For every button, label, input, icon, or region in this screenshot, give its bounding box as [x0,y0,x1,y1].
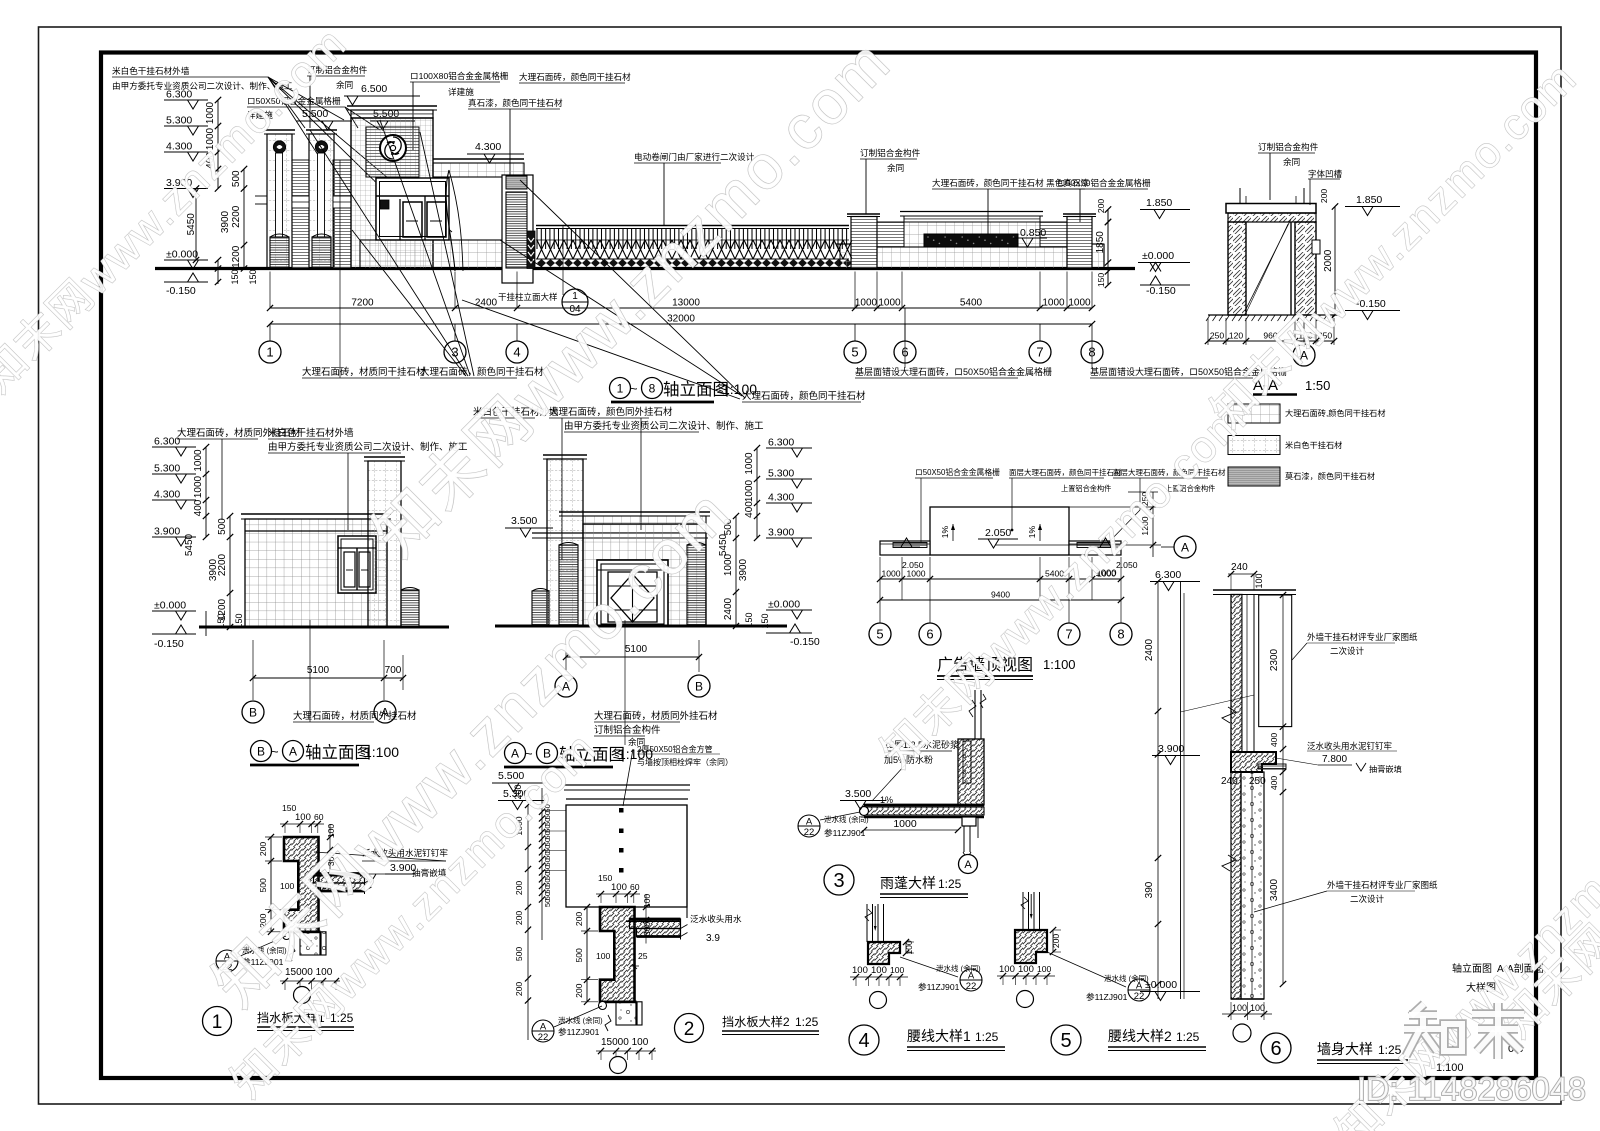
B-A window [338,536,376,593]
levels stack [152,446,196,448]
svg-text:300: 300 [642,922,652,937]
fence X lattice band [537,240,546,259]
svg-text:4: 4 [858,1030,869,1052]
svg-text:2400: 2400 [475,298,498,309]
svg-text:米白色干挂石材外墙: 米白色干挂石材外墙 [112,65,190,76]
svg-text:5.300: 5.300 [768,468,794,480]
svg-text:4.300: 4.300 [475,141,501,153]
B-A right tower [364,456,405,458]
A-A top antennas [1239,188,1241,203]
detail6 right dim ladder [1282,595,1284,740]
svg-text:面层大理石面砖，颜色同干挂石材: 面层大理石面砖，颜色同干挂石材 [1009,467,1122,477]
svg-text:3900: 3900 [208,558,219,581]
break squiggle [289,945,295,961]
svg-text:基层面错设大理石面砖，ロ50X50铝合金金属格栅: 基层面错设大理石面砖，ロ50X50铝合金金属格栅 [855,366,1052,377]
title [675,1014,704,1043]
A-A dims [1207,318,1209,345]
svg-text:1:100: 1:100 [364,744,399,760]
detail3 1000 dim [864,829,958,831]
svg-text:1000: 1000 [205,101,216,124]
svg-text:0.850: 0.850 [1020,227,1046,239]
svg-text:由甲方委托专业资质公司二次设计、制作、施工: 由甲方委托专业资质公司二次设计、制作、施工 [564,420,764,432]
empty ref circle [294,987,311,1004]
svg-text:6: 6 [1270,1038,1281,1060]
svg-text:150: 150 [230,269,240,284]
svg-text:2300: 2300 [1269,648,1280,671]
svg-text:订制铝合金构件: 订制铝合金构件 [860,147,921,158]
fence bottom diamond chain [537,259,546,267]
drip circle [599,1002,607,1010]
svg-text:22: 22 [966,981,977,992]
svg-text:-0.150: -0.150 [166,285,196,297]
ad wall pillar axis5 [847,213,880,215]
svg-text:大理石面砖，颜色同干挂石材: 大理石面砖，颜色同干挂石材 [742,390,866,402]
detail6 break marks [1222,707,1236,723]
corner brand 知末 (drawn) [1411,1004,1424,1016]
sill wall tiles [360,240,505,269]
svg-text:200: 200 [514,982,524,997]
waist slab [868,942,900,964]
svg-text:390: 390 [1144,881,1155,898]
svg-text:9400: 9400 [991,590,1010,600]
left dims [586,907,588,1002]
svg-text:参11ZJ901: 参11ZJ901 [558,1026,600,1037]
svg-text:200: 200 [1051,934,1061,949]
svg-text:5100: 5100 [625,644,648,655]
detail6 left dims [1157,582,1159,1000]
svg-text:二次设计: 二次设计 [1350,894,1385,904]
B-A building body [245,519,387,627]
svg-text:±0.000: ±0.000 [768,599,800,611]
waist ref circle [870,992,887,1009]
svg-text:大理石面砖,颜色同干挂石材: 大理石面砖,颜色同干挂石材 [1285,408,1386,418]
svg-text:参11ZJ901: 参11ZJ901 [1086,991,1128,1002]
dims row 7200/2400/13000... [270,307,1092,309]
A-B left tower [543,454,587,456]
svg-text:B: B [695,679,703,693]
svg-text:1: 1 [572,291,578,302]
svg-text:B: B [249,705,257,719]
svg-text:500: 500 [217,518,228,535]
detail6 upper wall column [1231,595,1242,753]
svg-text:6.300: 6.300 [768,437,794,449]
svg-text:±0.000: ±0.000 [1145,979,1177,991]
svg-text:A: A [289,744,297,758]
plan main rect [930,507,1069,555]
empty ref circle [610,1057,627,1074]
svg-text:15000 100: 15000 100 [601,1037,649,1048]
svg-text:5.500: 5.500 [302,108,328,120]
svg-text:大理石面砖，材质同干挂石材: 大理石面砖，材质同干挂石材 [302,366,426,378]
svg-text:250: 250 [1210,331,1225,341]
svg-text:3.900: 3.900 [768,527,794,539]
svg-text:1:25: 1:25 [1176,1030,1200,1044]
svg-text:60: 60 [630,882,640,892]
svg-text:5: 5 [1060,1030,1071,1052]
svg-text:1850: 1850 [1095,231,1106,254]
svg-text:1000: 1000 [893,818,917,830]
svg-text:8: 8 [1117,627,1124,642]
svg-text:A: A [964,859,972,871]
guard house roof slab [433,158,524,160]
svg-text:120: 120 [1229,331,1244,341]
svg-text:100: 100 [890,965,905,975]
waist bottom dims [997,975,1055,977]
svg-text:1:25: 1:25 [938,877,962,891]
svg-text:5.300: 5.300 [154,463,180,475]
detail6 stone panel outline [1259,595,1292,727]
svg-text:60: 60 [314,812,324,822]
retractable fence lattice [536,225,849,227]
svg-text:22: 22 [538,1032,549,1043]
fence: gate post block [527,231,535,269]
A-A door swing line [1245,219,1291,311]
svg-text:1000: 1000 [881,569,900,579]
svg-text:200: 200 [1319,189,1329,204]
dims row total 32000 [270,323,1092,325]
svg-text:1:50: 1:50 [1305,378,1330,393]
svg-text:100: 100 [1232,1003,1247,1013]
svg-text:500: 500 [514,947,524,962]
svg-text:米白色干挂石材外墙: 米白色干挂石材外墙 [268,427,354,439]
leader fan lines [268,77,305,128]
svg-text:~: ~ [630,381,638,396]
legend swatches [1228,404,1280,423]
svg-text:泄水线 (余同): 泄水线 (余同) [558,1015,603,1025]
svg-text:1000: 1000 [193,475,204,498]
svg-text:2400: 2400 [723,597,734,620]
B-A fluted base right [401,590,419,627]
svg-text:大理石面砖，材质同外挂石材: 大理石面砖，材质同外挂石材 [293,710,417,722]
title 1-8 [610,378,631,399]
svg-text:1000: 1000 [1042,298,1065,309]
detail6 left extension lines [1180,582,1182,1000]
flashing lower layer [321,883,365,891]
svg-text:雨蓬大样: 雨蓬大样 [880,875,936,891]
svg-text:100: 100 [596,951,611,961]
svg-text:腰线大样1: 腰线大样1 [907,1028,971,1044]
svg-text:6: 6 [926,627,933,642]
svg-text:泄水线 (余同): 泄水线 (余同) [824,814,869,824]
black sign board [924,234,1018,247]
svg-text:泛水收头用水: 泛水收头用水 [690,913,742,924]
svg-text:200: 200 [514,881,524,896]
svg-text:1: 1 [212,1012,223,1033]
svg-text:6.500: 6.500 [361,83,387,95]
plan right dims [995,506,1161,508]
detail2 upper panel [564,784,690,786]
detail3 A bubble below [959,855,978,874]
svg-text:1000: 1000 [193,449,204,472]
svg-text:1000: 1000 [878,298,901,309]
A-B body [583,524,706,626]
svg-text:详建施: 详建施 [448,86,474,97]
svg-text:7.800: 7.800 [1322,754,1347,765]
svg-text:上置铝合金构件: 上置铝合金构件 [1061,484,1111,493]
svg-text:1000: 1000 [1068,298,1091,309]
A-B ground [495,625,787,628]
svg-text:25: 25 [638,951,648,961]
svg-text:±0.000: ±0.000 [1142,250,1174,262]
svg-text:50: 50 [543,899,552,907]
svg-text:5450: 5450 [184,533,195,556]
svg-text:3400: 3400 [1269,878,1280,901]
detail3 wall above w break [974,690,976,739]
svg-text:挡水板大样2: 挡水板大样2 [722,1014,790,1029]
svg-text:墙身大样: 墙身大样 [1317,1041,1373,1057]
svg-text:100: 100 [1018,964,1034,975]
svg-text:7: 7 [1036,345,1043,360]
concrete wall below [300,932,326,955]
svg-text:500: 500 [574,948,584,963]
svg-text:A: A [1181,540,1189,554]
svg-text:1000: 1000 [744,479,755,502]
svg-text:8: 8 [649,381,656,395]
waist dims [1052,930,1054,952]
svg-text:±0.000: ±0.000 [154,600,186,612]
svg-text:ロ100X80铝合金金属格栅: ロ100X80铝合金金属格栅 [410,70,509,81]
svg-text:~: ~ [271,744,279,759]
svg-text:2200: 2200 [231,205,242,228]
plan dims below [880,578,1121,580]
svg-text:150: 150 [760,613,770,628]
A-A under-cap band [1228,213,1316,222]
A-A cap slab [1226,204,1316,214]
svg-text:5: 5 [876,627,883,642]
svg-text:大理石面砖，材质同外挂石材: 大理石面砖，材质同外挂石材 [594,710,718,722]
svg-text:订制铝合金构件: 订制铝合金构件 [594,724,661,736]
level marks left stack [164,99,208,101]
tower recessed panel [366,127,419,177]
svg-text:200: 200 [514,911,524,926]
svg-text:泄水线 (余同): 泄水线 (余同) [1104,973,1149,983]
waist bottom dims [850,976,908,978]
svg-text:2000: 2000 [1323,249,1334,272]
concrete wall below [616,1002,642,1025]
Z wall outline 挡水板大样1 [284,837,319,932]
svg-text:与墙按顶相栓焊牢（余同）: 与墙按顶相栓焊牢（余同） [637,757,733,767]
ad wall left stub [836,243,851,245]
finish boundary curve [446,170,455,271]
svg-text:真石漆，颜色同干挂石材: 真石漆，颜色同干挂石材 [468,97,563,108]
B-A dims below [253,677,403,679]
svg-text:1:100: 1:100 [722,381,757,397]
waist ref circle [1017,991,1034,1008]
axis bubbles [269,324,271,341]
svg-text:1000: 1000 [855,298,878,309]
svg-text:A: A [540,1022,547,1033]
svg-text:~: ~ [525,746,533,761]
ad wall center [900,211,1043,213]
vertical dims left [217,100,219,189]
detail6 title [1261,1033,1291,1063]
B-A title [251,741,272,762]
detail3 title [824,865,854,895]
title [203,1007,232,1036]
svg-text:7: 7 [1065,627,1072,642]
svg-text:100: 100 [999,964,1015,975]
svg-text:3900: 3900 [738,558,749,581]
svg-text:米白色干挂石材: 米白色干挂石材 [1285,440,1342,450]
svg-text:-0.150: -0.150 [1146,285,1176,297]
svg-text:100: 100 [1254,573,1264,588]
svg-text:2: 2 [684,1019,695,1040]
svg-text:400: 400 [1269,733,1279,748]
svg-text:700: 700 [385,665,402,676]
svg-text:1%: 1% [1027,525,1037,538]
callout bubble 1/04 [562,289,588,315]
A-B dims below [566,656,699,658]
svg-text:1:100: 1:100 [1043,657,1076,672]
top elevation 1-8 axis: ground line [155,267,1135,270]
svg-text:1.850: 1.850 [1146,197,1172,209]
large center watermark [201,477,744,1020]
svg-text:外墙干挂石材评专业厂家图纸: 外墙干挂石材评专业厂家图纸 [1327,880,1438,890]
plan gratings [893,543,927,548]
A/22 callout [216,950,238,972]
B-A ground [199,626,449,629]
detail2 left dim ladder (50s) [541,788,543,940]
svg-text:3.9: 3.9 [706,933,720,944]
A-B door [597,560,668,626]
svg-text:500: 500 [258,878,268,893]
large upper watermark [361,27,904,570]
svg-text:大理石面砖，颜色同干挂石材: 大理石面砖，颜色同干挂石材 [519,71,631,82]
plan axis bubbles [879,600,881,623]
svg-text:200: 200 [574,912,584,927]
A-B right level stack [766,447,812,449]
svg-text:100: 100 [871,965,887,976]
Z wall outline 挡水板大样2 [600,907,635,1002]
svg-text:B: B [257,744,265,758]
svg-text:4: 4 [513,345,520,360]
waist detail wall above [1022,892,1024,930]
svg-text:余同: 余同 [887,162,904,173]
svg-text:ロ50X50铝合金金属格栅: ロ50X50铝合金金属格栅 [915,467,1000,477]
A-A left wall [1228,222,1246,315]
detail6 lower wall [1231,772,1241,999]
detail2 right panel edge [686,805,688,918]
svg-text:200: 200 [258,842,268,857]
svg-text:1%: 1% [880,795,893,805]
A-A right wall [1295,222,1316,315]
svg-text:二次设计: 二次设计 [1330,646,1365,656]
ad wall right stub [1092,243,1104,245]
svg-text:4.300: 4.300 [768,492,794,504]
svg-text:腰线大样2: 腰线大样2 [1108,1028,1172,1044]
svg-text:200: 200 [574,983,584,998]
svg-text:3.500: 3.500 [845,788,871,800]
svg-text:3.500: 3.500 [511,515,537,527]
svg-text:轴立面图: 轴立面图 [663,380,729,399]
svg-text:1200: 1200 [231,245,242,268]
svg-text:100: 100 [852,965,868,976]
svg-text:参11ZJ901: 参11ZJ901 [918,981,960,992]
svg-text:1:25: 1:25 [975,1030,999,1044]
svg-text:1%: 1% [940,525,950,538]
left dims [270,837,272,932]
svg-text:3: 3 [833,870,844,892]
svg-text:400: 400 [744,501,755,518]
svg-text:32000: 32000 [667,314,695,325]
svg-text:参11ZJ901: 参11ZJ901 [824,827,866,838]
tower logo [380,135,406,161]
axis-4 stone column [502,175,533,283]
waist dims [905,942,907,953]
svg-text:5: 5 [851,345,858,360]
A-A ground [1208,314,1340,316]
flashing lower layer [637,929,681,937]
svg-text:1: 1 [266,345,273,360]
svg-text:-0.150: -0.150 [790,636,820,648]
svg-text:2.050: 2.050 [985,527,1011,539]
svg-text:1000: 1000 [906,569,925,579]
svg-text:400: 400 [193,499,204,516]
svg-text:字体凹槽: 字体凹槽 [1308,169,1343,179]
svg-text:2400: 2400 [1144,638,1155,661]
svg-text:泛水收头用水泥钉钉牢: 泛水收头用水泥钉钉牢 [1307,741,1392,751]
plan triangles left/right [901,538,912,547]
svg-text:400: 400 [1269,776,1279,791]
detail3 below-slab drip [962,817,976,826]
svg-text:200: 200 [1096,199,1106,214]
svg-text:-0.150: -0.150 [154,638,184,650]
detail2 leader to panel [623,749,633,806]
svg-text:150: 150 [1096,273,1106,288]
gate pillar [306,129,337,131]
svg-text:150: 150 [248,269,258,284]
drip circle [283,932,291,940]
svg-text:1:25: 1:25 [795,1015,819,1029]
svg-text:3.900: 3.900 [154,526,180,538]
svg-text:余同: 余同 [336,79,353,90]
break squiggle [605,1015,611,1031]
svg-text:5.300: 5.300 [166,115,192,127]
svg-text:1.850: 1.850 [1356,194,1382,206]
detail6 top cap [1213,589,1296,591]
svg-text:1000: 1000 [744,452,755,475]
detail3 wall column [958,739,984,805]
svg-text:5400: 5400 [960,298,983,309]
svg-text:外墙干挂石材评专业厂家图纸: 外墙干挂石材评专业厂家图纸 [1307,632,1418,642]
svg-text:ID: 1148286048: ID: 1148286048 [1357,1071,1586,1107]
svg-text:A: A [806,817,813,828]
watermark layer [0,18,356,402]
svg-text:ロ50X50铝合金金属格栅: ロ50X50铝合金金属格栅 [1057,177,1151,188]
A-B pillars [559,545,578,626]
waist detail wall above [866,904,868,942]
svg-text:订制铝合金构件: 订制铝合金构件 [1258,141,1319,152]
svg-text:4.300: 4.300 [154,489,180,501]
svg-text:22: 22 [804,827,815,838]
svg-text:7200: 7200 [351,298,374,309]
svg-text:3900: 3900 [220,210,231,233]
A-B roof slab [559,511,710,513]
A-B title [505,743,526,764]
flashing slab [630,919,681,929]
svg-text:150: 150 [744,612,754,627]
gate pillar [264,129,295,131]
plan left wing [880,541,930,555]
svg-text:22: 22 [1134,991,1145,1002]
wall between pillars [292,160,309,269]
svg-text:2厚50X50铝合金方管: 2厚50X50铝合金方管 [637,744,713,754]
svg-text:抽膏嵌填: 抽膏嵌填 [1369,764,1402,774]
guard house window [376,178,449,240]
svg-text:干挂柱立面大样: 干挂柱立面大样 [498,292,558,302]
svg-text:±0.000: ±0.000 [166,249,198,261]
waist slab [1015,930,1047,963]
